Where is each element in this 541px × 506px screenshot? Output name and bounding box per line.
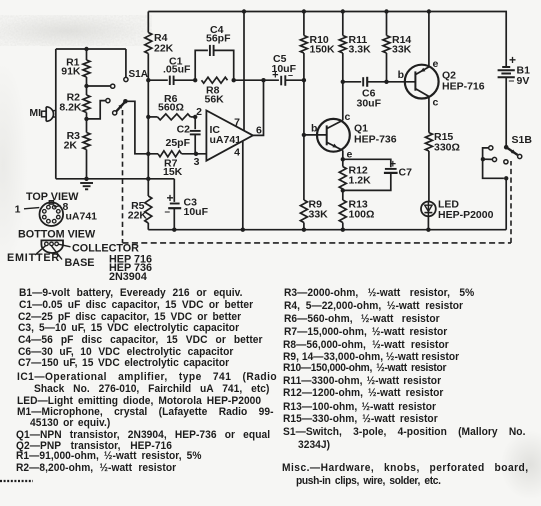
emitter lead line [35,246,46,255]
transistor Q1 [317,119,350,152]
svg-text:3.3K: 3.3K [349,44,372,56]
svg-text:1: 1 [15,204,21,216]
node pin2 junction [193,115,197,119]
svg-text:4: 4 [234,147,240,159]
node R14 bottom / Q2 base junction [384,80,388,84]
node LED bottom junction [426,228,430,232]
svg-text:e: e [433,58,439,70]
node S1B pole [504,145,509,150]
wire S1A contact 2 from R1-R2 junction [87,85,111,87]
capacitor C7 [343,159,391,167]
switch S1B contact 3 [504,160,508,164]
resistor R4 [147,12,149,33]
svg-text:C2: C2 [177,124,191,136]
capacitor C1 [148,79,168,81]
switch S1B contact 2 [492,157,496,161]
svg-text:b: b [311,123,317,135]
op-amp IC1 uA741 [206,111,253,161]
svg-text:30uF: 30uF [357,98,382,110]
node pin4 bottom rail junction [241,228,245,232]
svg-text:–: – [509,75,515,87]
svg-text:MI: MI [29,107,41,119]
wire dashed switch linkage right [510,161,512,243]
wire S1A top contact drop [125,49,127,77]
resistor R2 [86,86,88,95]
capacitor C4 [195,50,208,80]
svg-text:c: c [433,97,439,109]
resistor R8 [202,77,228,83]
LED HEP-P2000 [421,202,436,217]
svg-text:–: – [288,70,293,80]
svg-text:33K: 33K [309,209,329,221]
svg-text:7: 7 [234,117,240,129]
svg-text:100Ω: 100Ω [349,209,375,221]
svg-text:HEP-P2000: HEP-P2000 [438,209,494,221]
wire S1B contact 2 stub [483,158,492,160]
node Q2 emitter top rail junction [427,9,431,13]
node R9 bottom junction [302,228,306,232]
wire Q2 emitter to top rail [428,12,430,67]
node S1B bracket junction [481,157,485,161]
node C1 left junction [146,78,150,82]
switch S1A wiper arm [116,102,124,111]
transistor Q2 [405,65,439,99]
wire dashed switch linkage left [122,110,124,243]
svg-text:S1B: S1B [512,134,533,146]
svg-text:22K: 22K [154,43,174,55]
capacitor C2 [194,117,196,129]
wire ground bus [56,178,175,180]
capacitor C3 [173,179,175,202]
wire left vertical (mic rail) [55,49,57,179]
resistor R15 [425,133,432,151]
svg-text:15K: 15K [163,166,183,178]
svg-text:33K: 33K [392,44,412,56]
svg-text:uA741: uA741 [210,134,242,146]
svg-text:uA741: uA741 [66,211,98,223]
svg-text:56K: 56K [205,94,225,106]
switch S1B contact bracket [483,148,504,178]
switch S1A contact 1 (top) [124,77,128,81]
node Q1 emitter junction [341,157,345,161]
svg-text:+: + [166,191,173,205]
wire right rail upper (top rail to battery) [505,12,507,68]
wire pin7 from top rail [243,12,245,131]
node R2-R3 junction [84,117,88,121]
resistor R7 [158,151,182,157]
svg-text:+: + [509,53,516,67]
node R12 bottom junction [341,188,345,192]
node R10 top rail junction [302,9,306,13]
base lead line [52,246,63,260]
node Q1 base junction [302,133,306,137]
node ground bus / left rail junction [146,177,150,181]
wire S1A common to R7 [125,101,158,154]
node R6 left junction [146,115,150,119]
ground [80,182,93,184]
resistor R13 [342,190,344,200]
svg-text:330Ω: 330Ω [434,142,460,154]
svg-text:8.2K: 8.2K [59,102,82,114]
svg-text:c: c [345,111,351,123]
wire Q2 collector down [428,96,430,132]
wire Q1 collector [342,82,344,121]
switch S1B wiper contact [518,154,522,158]
node R1 top junction [84,47,88,51]
svg-text:S1A: S1A [129,69,148,80]
node R3 bottom on ground bus [84,177,88,181]
resistor R12 [339,167,346,189]
node pin3 junction [194,152,198,156]
wire left rail middle segments [147,80,149,196]
node C3 bottom junction [172,228,176,232]
svg-text:10uF: 10uF [184,206,209,218]
svg-text:56pF: 56pF [206,33,231,45]
wire right rail lower (bottom rail up to S1B) [505,178,507,229]
svg-text:BASE: BASE [65,257,95,269]
node S1B bracket to rail junction [504,176,508,180]
resistor R11 [342,12,344,36]
svg-text:EMITTER: EMITTER [7,252,60,264]
svg-text:HEP-716: HEP-716 [442,81,485,93]
svg-text:+: + [390,159,396,171]
switch S1A wiper pivot [113,111,117,115]
capacitor C6 [343,81,361,83]
svg-text:C7: C7 [399,167,413,179]
node C5 right junction [302,78,306,82]
node R14 top rail junction [384,9,388,13]
collector lead line [58,244,70,247]
node feedback to pin6 junction [261,78,265,82]
svg-text:+: + [272,70,278,82]
node R1-R2 junction [84,84,88,88]
capacitor C5 [280,76,282,86]
svg-text:2K: 2K [64,140,78,152]
switch S1A contact 2 [111,84,115,88]
node S1A wiper common [123,99,128,104]
svg-text:22K: 22K [128,210,148,222]
resistor R1 [86,49,88,60]
wire top-left horizontal [56,48,126,50]
svg-text:–: – [164,207,170,218]
svg-text:25pF: 25pF [165,137,190,149]
switch S1A contact 3 [106,99,110,103]
wire top rail [148,11,507,13]
svg-text:.05uF: .05uF [163,64,191,76]
resistor R6 [148,116,157,118]
svg-text:BOTTOM VIEW: BOTTOM VIEW [18,229,96,241]
svg-text:2: 2 [196,106,202,118]
resistor R10 [303,12,305,36]
svg-text:150K: 150K [310,44,336,56]
resistor R3 [86,119,88,133]
battery B1 [502,66,510,68]
wire pin6 output to feedback node [253,80,264,135]
node C1-R8-C4 junction [193,78,197,82]
node R8-C4 right junction [232,78,236,82]
node R11 bottom / C6 junction [341,80,345,84]
node pin7 top rail junction [242,9,246,13]
resistor R14 [386,12,388,36]
svg-text:560Ω: 560Ω [158,102,184,114]
node R11 top rail junction [341,9,345,13]
bottom-left scan mark [0,480,33,482]
resistor R5 [145,196,152,223]
node R13 bottom junction [341,228,345,232]
svg-text:2N3904: 2N3904 [109,271,147,283]
resistor R9 [303,135,305,200]
wire dashed switch linkage bottom [123,242,512,244]
switch S1B contact 1 [489,146,493,150]
svg-text:3: 3 [194,156,200,168]
node R7 crossing junction [146,152,150,156]
wire S1A contact 3 from R2-R3 junction [87,101,106,119]
svg-text:91K: 91K [61,66,81,78]
svg-text:HEP-736: HEP-736 [354,134,397,146]
svg-text:b: b [398,69,404,81]
wire R8 node to C5 [234,79,279,81]
svg-text:9V: 9V [517,75,530,87]
switch S1B wiper arm [506,147,517,155]
wire pin4 to bottom rail [242,141,244,230]
wire bottom rail [148,229,506,231]
wire R10 column to Q1 base node [303,80,305,135]
svg-text:1.2K: 1.2K [349,175,372,187]
